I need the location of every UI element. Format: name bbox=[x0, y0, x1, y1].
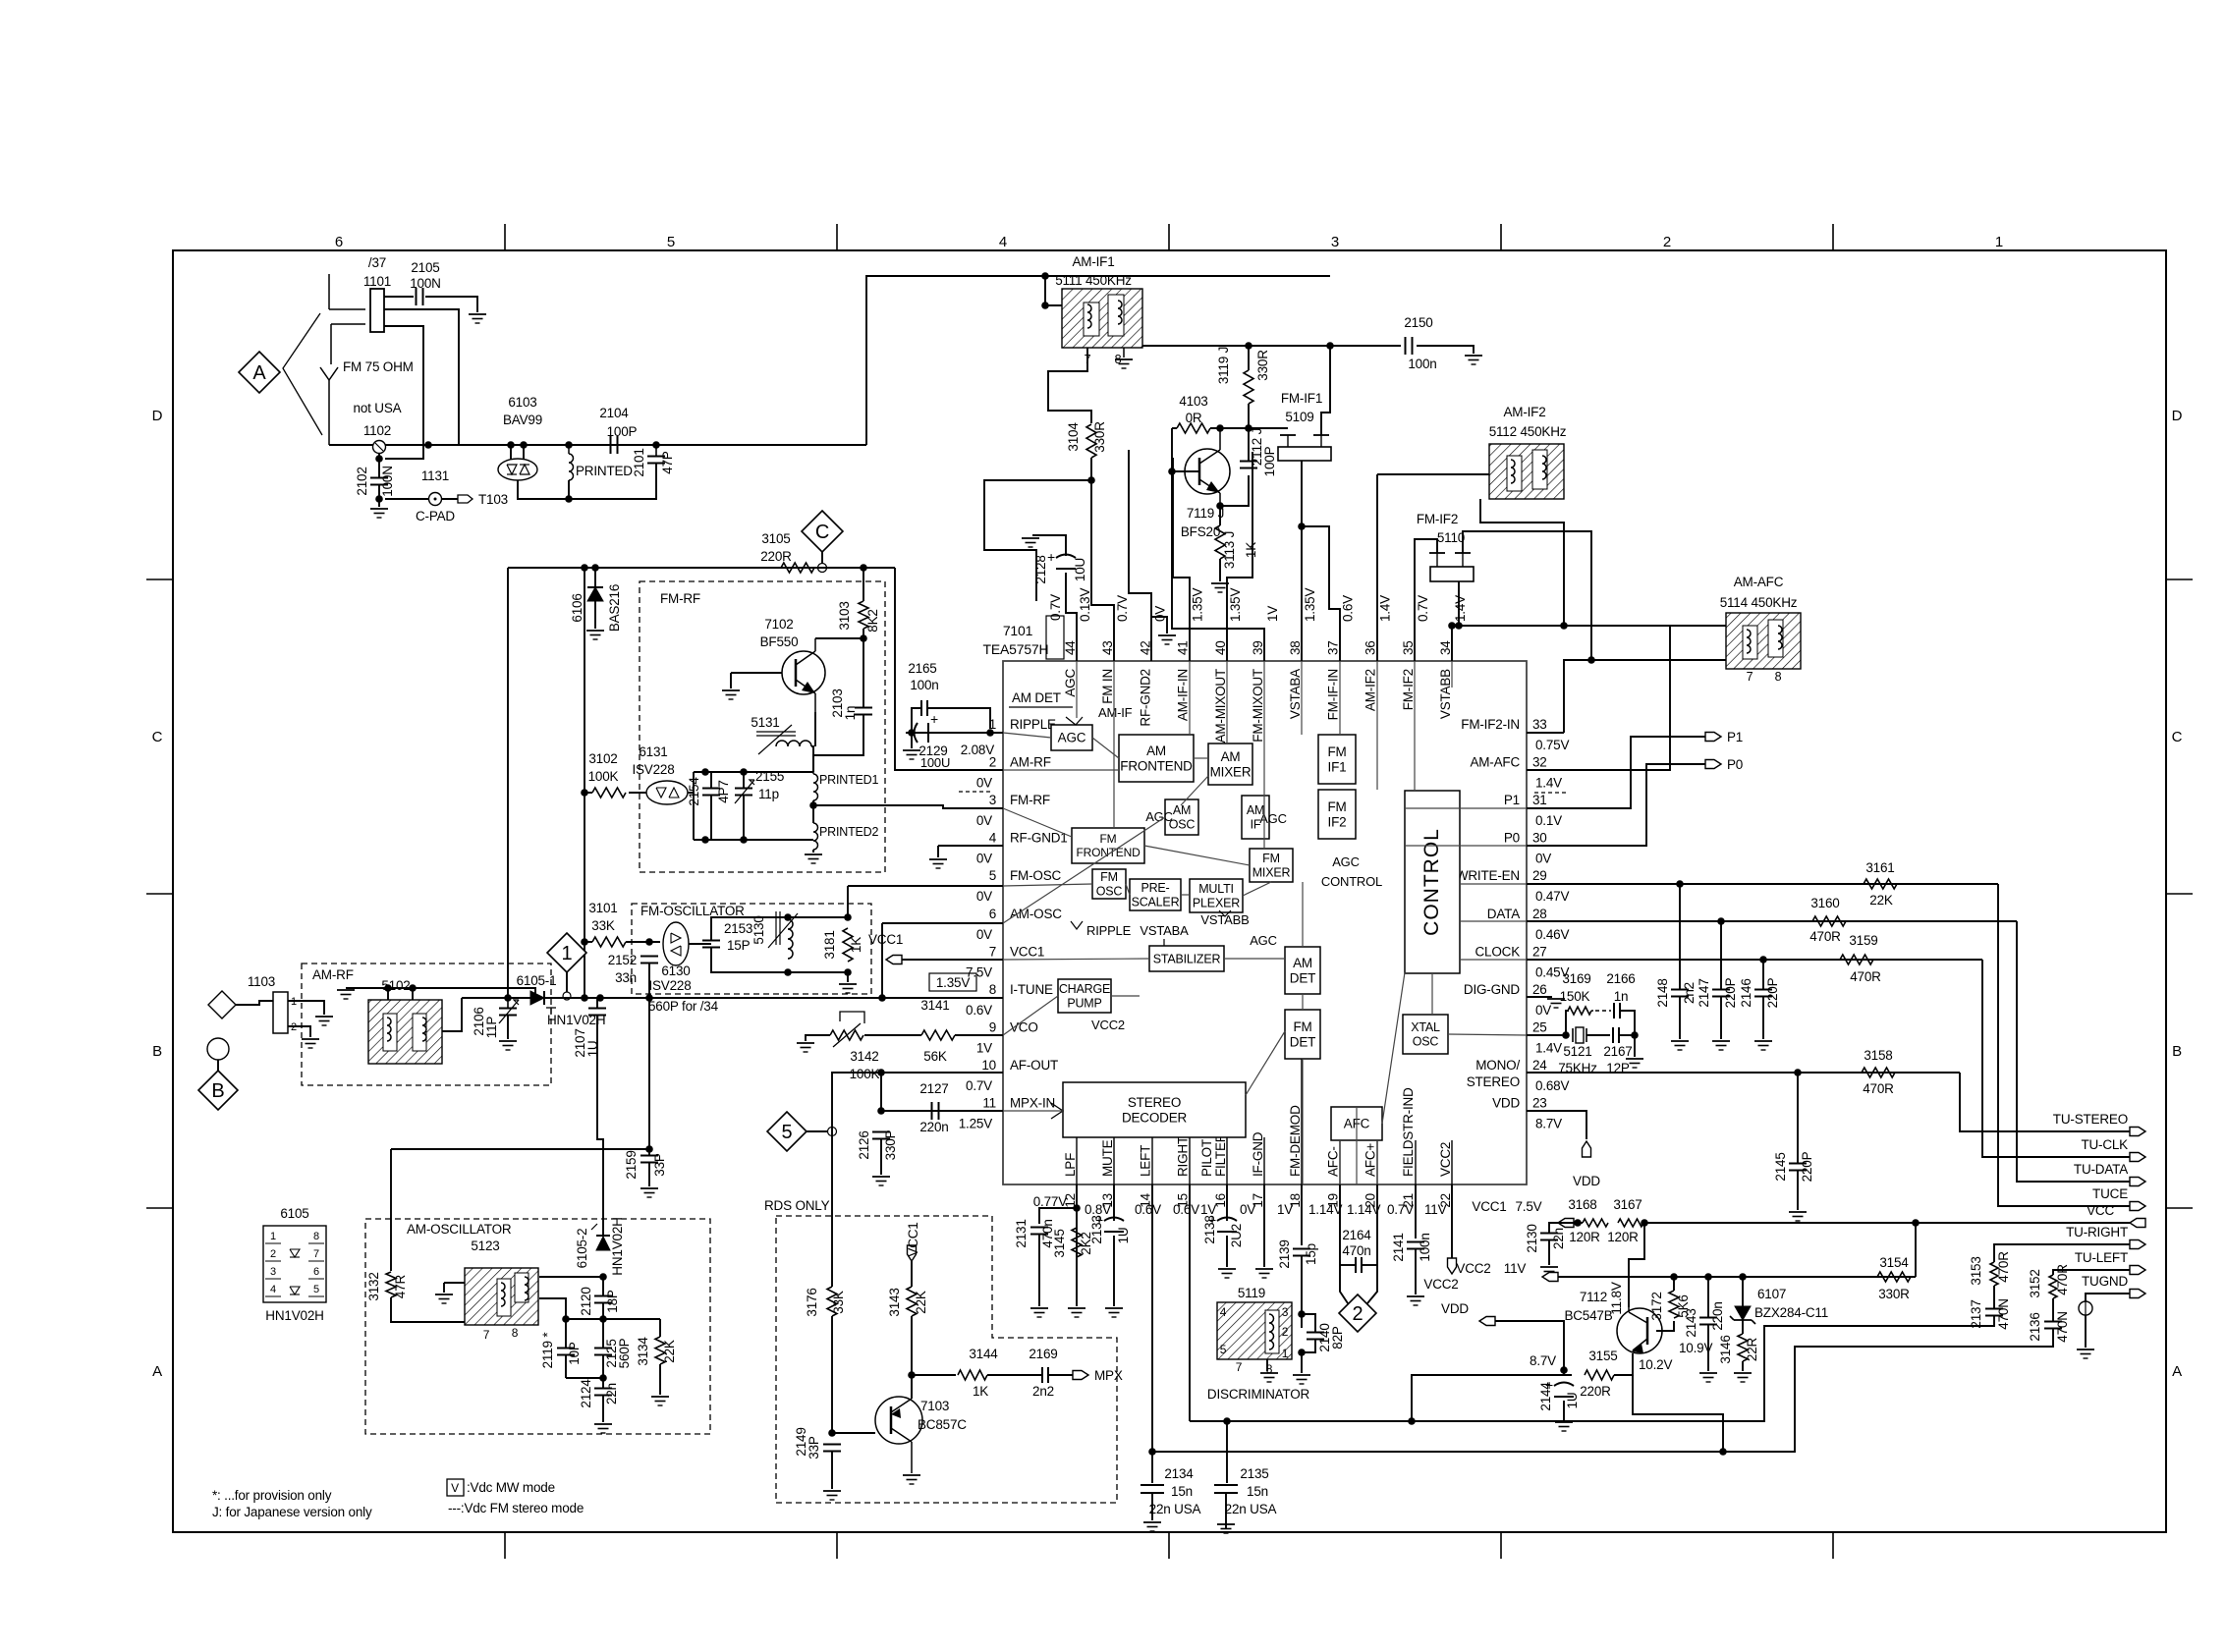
svg-text:100N: 100N bbox=[380, 466, 395, 496]
connector T103 bbox=[458, 495, 473, 503]
ground 2130 bbox=[1540, 1266, 1558, 1268]
block STEREO DECODER bbox=[1063, 1082, 1246, 1137]
svg-text:22K: 22K bbox=[914, 1291, 928, 1314]
capacitor 2146 bbox=[1754, 989, 1772, 991]
svg-text:220n: 220n bbox=[1710, 1301, 1725, 1330]
resistor 3141 bbox=[921, 1030, 955, 1040]
wire TUGND gnd bbox=[2085, 1315, 2087, 1348]
trimmer 3142 bbox=[830, 1030, 863, 1040]
wire pin10 corner bbox=[832, 1073, 881, 1287]
svg-text:BFS20: BFS20 bbox=[1181, 524, 1220, 539]
wire 7103 to 3144 bbox=[912, 1374, 956, 1376]
block FM MIXER bbox=[1250, 849, 1293, 882]
wire 3181 gnd bbox=[847, 972, 849, 982]
svg-text:33K: 33K bbox=[591, 918, 615, 933]
svg-text:2124: 2124 bbox=[579, 1379, 593, 1408]
diode 6105-2 bbox=[596, 1237, 610, 1250]
wire 3103 down bbox=[863, 629, 864, 638]
wire 2140 loop bbox=[1302, 1314, 1315, 1332]
junction 2167 right bbox=[1631, 1031, 1639, 1039]
wire 7102 base bbox=[731, 672, 782, 674]
wire pin14 long down bbox=[1151, 1184, 1153, 1452]
wire 3142 left bbox=[806, 1035, 830, 1041]
junction 7103 base bbox=[828, 1429, 836, 1437]
connector VCC2 pin22 bbox=[1448, 1258, 1457, 1274]
svg-text:10U: 10U bbox=[1073, 558, 1087, 581]
svg-text:3181: 3181 bbox=[822, 930, 837, 959]
junction 1620-672 bbox=[1587, 656, 1595, 664]
IC internal connection lines bbox=[1076, 661, 1078, 718]
ground 2124 bbox=[594, 1423, 612, 1425]
diode 6106 BAS216 bbox=[587, 587, 603, 601]
wire pin5 to tank bbox=[848, 885, 1003, 887]
junction emitter-TULEFT bbox=[1719, 1448, 1727, 1456]
jack TUGND bbox=[2079, 1301, 2092, 1315]
ground 5119 pin8 bbox=[1260, 1372, 1278, 1374]
wire 2155 dn bbox=[743, 796, 745, 840]
svg-text:38: 38 bbox=[1288, 640, 1303, 655]
wire 27 to TU-CLK bbox=[1982, 960, 2130, 1157]
svg-text:FM-RF: FM-RF bbox=[1010, 793, 1050, 807]
connector TU-DATA bbox=[2130, 1178, 2145, 1186]
ground pin42 stub bbox=[1158, 634, 1176, 636]
wire pin29 WRITE-EN bbox=[1527, 883, 1998, 885]
svg-text:FM: FM bbox=[1327, 744, 1346, 759]
wire 2154 up bbox=[710, 772, 712, 789]
wire 5102 top rail bbox=[388, 988, 535, 998]
svg-text:OSC: OSC bbox=[1413, 1035, 1439, 1049]
ground 2159 bbox=[640, 1187, 658, 1189]
svg-text:MIXER: MIXER bbox=[1210, 764, 1252, 779]
svg-text:AM: AM bbox=[1173, 803, 1191, 817]
svg-text:RIPPLE: RIPPLE bbox=[1010, 717, 1056, 732]
svg-text:26: 26 bbox=[1532, 982, 1547, 997]
wire 5123 gnd down bbox=[443, 1283, 445, 1293]
capacitor 2166 bbox=[1613, 1003, 1615, 1019]
label RIPPLE internal bbox=[1071, 921, 1083, 929]
svg-text:22K: 22K bbox=[1869, 893, 1893, 908]
svg-text:5130: 5130 bbox=[751, 915, 766, 944]
svg-text:4: 4 bbox=[1220, 1305, 1227, 1319]
svg-text:5131: 5131 bbox=[751, 715, 779, 730]
wire bottom row right bbox=[569, 464, 656, 499]
ground TUGND bbox=[2077, 1349, 2094, 1350]
wire TU-RIGHT run bbox=[1994, 1244, 2130, 1262]
wire 4103 left bbox=[1172, 427, 1177, 429]
svg-text:AFC-: AFC- bbox=[1325, 1146, 1340, 1177]
connector MPX bbox=[1073, 1371, 1088, 1380]
wire I-TUNE main bbox=[462, 997, 1003, 999]
svg-text:FM-IF2: FM-IF2 bbox=[1401, 669, 1416, 710]
svg-text:AM-MIXOUT: AM-MIXOUT bbox=[1213, 669, 1228, 743]
wire 5130 to 3181 top bbox=[788, 916, 848, 918]
svg-text:5: 5 bbox=[782, 1122, 793, 1143]
junction 7119 emitter bbox=[1216, 502, 1224, 510]
junction pin34-637 bbox=[1448, 622, 1456, 630]
wire pin40 stair bbox=[1227, 452, 1252, 661]
svg-text:0.6V: 0.6V bbox=[1135, 1202, 1161, 1217]
wire main antenna2 bbox=[385, 444, 866, 446]
svg-text:100P: 100P bbox=[1262, 446, 1277, 476]
svg-text:6: 6 bbox=[313, 1266, 319, 1278]
wire tank left riser bbox=[693, 772, 695, 840]
wire 6131 left bbox=[629, 792, 646, 794]
svg-text:FM-IF-IN: FM-IF-IN bbox=[1325, 669, 1340, 720]
diamond 1 bbox=[547, 933, 586, 972]
wire 5123 right top bbox=[539, 1276, 603, 1278]
svg-text:HN1V02H: HN1V02H bbox=[265, 1308, 323, 1323]
svg-text:11.8V: 11.8V bbox=[1609, 1282, 1624, 1314]
diamond A bbox=[239, 352, 280, 393]
wire 2135 stub bbox=[1226, 1421, 1228, 1483]
dashes 3169-2166 bbox=[1591, 1010, 1611, 1012]
ground 2145 bbox=[1789, 1211, 1807, 1213]
svg-text:3161: 3161 bbox=[1865, 860, 1894, 875]
svg-text:22n: 22n bbox=[1551, 1228, 1566, 1249]
svg-text:18P: 18P bbox=[605, 1290, 620, 1313]
svg-text:15n: 15n bbox=[1247, 1484, 1268, 1499]
svg-text:470N: 470N bbox=[2055, 1311, 2070, 1342]
border frame bbox=[173, 250, 2166, 1532]
junction tankB t bbox=[784, 913, 792, 921]
svg-text:22n USA: 22n USA bbox=[1149, 1502, 1201, 1516]
wire 2164 r bbox=[1362, 1264, 1377, 1266]
junction printed mid bbox=[809, 801, 817, 809]
wire 2134 gnd bbox=[1151, 1493, 1153, 1520]
wire 5110 gate right bbox=[1463, 531, 1591, 660]
svg-text:39: 39 bbox=[1251, 640, 1265, 655]
svg-text:RF-GND1: RF-GND1 bbox=[1010, 831, 1068, 846]
svg-text:5109: 5109 bbox=[1285, 410, 1313, 424]
svg-text:100N: 100N bbox=[410, 276, 440, 291]
svg-text:3143: 3143 bbox=[887, 1288, 902, 1316]
svg-text:37: 37 bbox=[1325, 640, 1340, 655]
svg-text:HN1V02H: HN1V02H bbox=[610, 1217, 625, 1275]
svg-text:8K2: 8K2 bbox=[865, 609, 880, 632]
wire VCC1 feed bbox=[1574, 1222, 1583, 1224]
svg-text:2136: 2136 bbox=[2028, 1312, 2042, 1341]
wire 1131 bbox=[385, 498, 429, 500]
svg-text:2138: 2138 bbox=[1202, 1215, 1217, 1243]
wire pin42 stair bbox=[1129, 450, 1151, 661]
svg-text:0.47V: 0.47V bbox=[1535, 889, 1569, 904]
block FM IF1 bbox=[1318, 735, 1356, 784]
connector VCC1 rds bbox=[908, 1245, 917, 1261]
svg-text:1.4V: 1.4V bbox=[1453, 595, 1468, 622]
svg-text:100n: 100n bbox=[1418, 1233, 1432, 1261]
svg-text:2145: 2145 bbox=[1773, 1152, 1788, 1181]
wire pin6 down bbox=[881, 923, 883, 998]
svg-text:2155: 2155 bbox=[755, 769, 784, 784]
svg-text:0.7V: 0.7V bbox=[1115, 595, 1130, 622]
svg-text:TU-STEREO: TU-STEREO bbox=[2053, 1112, 2128, 1127]
ground under 2150 bbox=[1465, 355, 1482, 357]
svg-text:33P: 33P bbox=[807, 1436, 821, 1459]
wire pin6 jog bbox=[882, 922, 1003, 924]
svg-text:VCC2: VCC2 bbox=[1423, 1277, 1458, 1292]
svg-text:8: 8 bbox=[989, 982, 996, 997]
svg-text:FRONTEND: FRONTEND bbox=[1076, 846, 1141, 859]
svg-text:RIPPLE: RIPPLE bbox=[1086, 923, 1132, 938]
wire 7112 collector bbox=[1629, 1223, 1644, 1307]
svg-text:RDS ONLY: RDS ONLY bbox=[764, 1198, 830, 1213]
ground xtal bbox=[1626, 1058, 1643, 1060]
junction 5102 a bbox=[384, 984, 392, 992]
wire 5109 rgate to 352 bbox=[1321, 346, 1330, 428]
svg-text:FM: FM bbox=[1262, 852, 1280, 865]
wire 7102 base gnd bbox=[730, 673, 732, 688]
svg-text:6: 6 bbox=[335, 234, 343, 250]
wire 2143 up bbox=[1707, 1277, 1709, 1317]
capacitor 2126 bbox=[872, 1131, 890, 1133]
svg-text:3113 J: 3113 J bbox=[1222, 531, 1237, 569]
wire 5121 to 2167 bbox=[1586, 1034, 1610, 1036]
svg-text:10.2V: 10.2V bbox=[1639, 1357, 1672, 1372]
svg-text:2127: 2127 bbox=[919, 1081, 948, 1096]
svg-text:3134: 3134 bbox=[636, 1337, 650, 1366]
junction 5110-637 bbox=[1455, 622, 1463, 630]
svg-text:3159: 3159 bbox=[1849, 933, 1877, 948]
boxed 1.35V pin8 bbox=[929, 973, 976, 991]
svg-text:28: 28 bbox=[1532, 907, 1547, 921]
svg-text:100U: 100U bbox=[920, 755, 950, 770]
ground under 3113 bbox=[1211, 582, 1229, 584]
svg-text:220P: 220P bbox=[1765, 977, 1780, 1008]
svg-text:STEREO: STEREO bbox=[1128, 1095, 1181, 1110]
svg-text:3160: 3160 bbox=[1810, 896, 1839, 910]
circle B node bbox=[207, 1038, 229, 1060]
dashed box AM-OSCILLATOR bbox=[365, 1219, 710, 1434]
svg-text:0V: 0V bbox=[976, 776, 992, 791]
wire 1343 rail bbox=[566, 1318, 660, 1320]
svg-text:0V: 0V bbox=[1152, 606, 1167, 622]
svg-text:AM-OSCILLATOR: AM-OSCILLATOR bbox=[407, 1222, 512, 1237]
svg-text:100K: 100K bbox=[850, 1067, 880, 1081]
wire circle to diamond B bbox=[217, 1060, 219, 1071]
svg-text:BZX284-C11: BZX284-C11 bbox=[1754, 1305, 1828, 1320]
svg-text:9: 9 bbox=[989, 1019, 996, 1034]
block AM IF bbox=[1242, 796, 1269, 839]
junction 606-578 bbox=[591, 564, 599, 572]
junction 2102-1131 bbox=[375, 495, 383, 503]
wire 220R rail bbox=[508, 567, 781, 569]
svg-text:3158: 3158 bbox=[1864, 1048, 1892, 1063]
wire 2153 links2 bbox=[711, 948, 788, 972]
ground 2138 bbox=[1218, 1268, 1236, 1270]
svg-text:B: B bbox=[2172, 1043, 2182, 1060]
svg-text::Vdc MW mode: :Vdc MW mode bbox=[467, 1480, 555, 1495]
wire pin22 down bbox=[1451, 1184, 1453, 1258]
wire 2159 top bbox=[648, 1149, 650, 1155]
svg-text:2166: 2166 bbox=[1606, 971, 1635, 986]
wire pin1 loop bbox=[912, 708, 920, 733]
svg-text:FM: FM bbox=[1293, 1019, 1311, 1034]
wire 2136 step left bbox=[1152, 1329, 2053, 1452]
ground 2133 bbox=[1105, 1307, 1123, 1309]
capacitor 2141 bbox=[1407, 1241, 1424, 1243]
svg-text:0V: 0V bbox=[976, 813, 992, 828]
junction vcc1 2130 bbox=[1574, 1219, 1582, 1227]
junction am-if1 rail bbox=[1041, 272, 1049, 280]
ground under 2126 bbox=[872, 1176, 890, 1178]
junction 5111 left pin bbox=[1041, 302, 1049, 309]
svg-text:3103: 3103 bbox=[837, 601, 852, 630]
svg-text:2119 *: 2119 * bbox=[540, 1332, 555, 1369]
svg-text:1n: 1n bbox=[1614, 989, 1629, 1004]
wire 2112 top bbox=[1248, 428, 1250, 461]
wire 6107 up bbox=[1742, 1277, 1744, 1306]
capacitor 2127 bbox=[931, 1102, 933, 1120]
svg-text:11P: 11P bbox=[484, 1017, 499, 1039]
svg-text:2133: 2133 bbox=[1089, 1215, 1104, 1243]
wire 28 to TU-DATA bbox=[2017, 921, 2130, 1182]
svg-text:150K: 150K bbox=[1560, 989, 1590, 1004]
wire 1103 pin1 bbox=[288, 1001, 324, 1015]
svg-text:2169: 2169 bbox=[1029, 1347, 1057, 1361]
wire pin10 left bbox=[881, 1072, 1003, 1074]
wire pin11 bbox=[881, 1110, 1003, 1112]
junction antenna-2101 bbox=[652, 441, 660, 449]
svg-text:2n2: 2n2 bbox=[1682, 982, 1697, 1004]
ground 2144 bbox=[1555, 1421, 1573, 1423]
ground 2149 bbox=[823, 1490, 841, 1492]
wire 2129 gnd bbox=[911, 733, 913, 748]
capacitor 2153 bbox=[702, 940, 720, 942]
svg-text:330R: 330R bbox=[1092, 421, 1107, 453]
svg-text:AM-IF2: AM-IF2 bbox=[1503, 405, 1545, 419]
ground 1103 pin2 bbox=[302, 1038, 319, 1040]
svg-text:IF2: IF2 bbox=[1328, 814, 1347, 829]
wire pin21 down bbox=[1415, 1184, 1417, 1239]
svg-text:7: 7 bbox=[1236, 1360, 1243, 1374]
svg-text:C: C bbox=[815, 522, 829, 543]
svg-text:CLOCK: CLOCK bbox=[1475, 944, 1520, 959]
junction 27-2146 bbox=[1759, 956, 1767, 964]
junction 3172 top bbox=[1670, 1273, 1678, 1281]
svg-text:15n: 15n bbox=[1171, 1484, 1193, 1499]
wire 7102 emitter to tank bbox=[814, 712, 816, 746]
wire 3167 to VCC bbox=[1643, 1222, 2130, 1224]
svg-text:7.5V: 7.5V bbox=[1516, 1199, 1542, 1214]
capacitor 2154 bbox=[702, 788, 720, 790]
wire 5119 pin1 gnd bbox=[1301, 1352, 1303, 1373]
svg-text:1K: 1K bbox=[1244, 542, 1258, 558]
wire 1102 down bbox=[378, 454, 380, 477]
trimmer 2106 bbox=[507, 998, 509, 1009]
ground 5102 left bbox=[337, 989, 355, 991]
trimmer 2155 bbox=[735, 788, 752, 790]
wire 7102c to 2103 bbox=[863, 638, 864, 707]
svg-text:2102: 2102 bbox=[355, 467, 369, 495]
wire 6130 right bbox=[689, 943, 711, 945]
svg-text:3105: 3105 bbox=[761, 531, 790, 546]
resistor 3176 bbox=[827, 1287, 837, 1316]
antenna bracket 1101 bbox=[328, 274, 330, 309]
svg-text:5119: 5119 bbox=[1238, 1286, 1265, 1300]
svg-text:P1: P1 bbox=[1504, 793, 1520, 807]
resistor 3153 bbox=[1990, 1262, 1998, 1286]
svg-text:AM-IF2: AM-IF2 bbox=[1363, 669, 1378, 711]
svg-text:1102: 1102 bbox=[363, 423, 391, 438]
junction 1404 bbox=[599, 1374, 607, 1382]
wire 2137 step left bbox=[1190, 1316, 1994, 1421]
capacitor 2119 bbox=[557, 1348, 575, 1349]
wire pin34 up bbox=[1451, 626, 1453, 661]
svg-text:1n: 1n bbox=[843, 706, 858, 721]
svg-text:8.7V: 8.7V bbox=[1530, 1353, 1556, 1368]
wire pin17 down bbox=[1263, 1184, 1265, 1267]
wire 2120 down bbox=[602, 1303, 604, 1348]
svg-text:3101: 3101 bbox=[588, 901, 617, 915]
wire 5109 body down bbox=[1301, 461, 1303, 526]
svg-text:C: C bbox=[152, 729, 163, 745]
svg-text:0.6V: 0.6V bbox=[966, 1003, 992, 1018]
wire 2131 gnd bbox=[1038, 1235, 1040, 1306]
svg-text:3152: 3152 bbox=[2028, 1269, 2042, 1297]
wire 2153 links bbox=[711, 917, 788, 940]
wire 5109 to pin37 bbox=[1302, 526, 1340, 661]
svg-text:2U2: 2U2 bbox=[1229, 1224, 1244, 1247]
svg-text:FM: FM bbox=[1100, 870, 1118, 884]
block AM DET bbox=[1285, 947, 1320, 994]
svg-text:0.7V: 0.7V bbox=[1048, 594, 1063, 621]
svg-text:AM-AFC: AM-AFC bbox=[1734, 575, 1784, 589]
svg-text:560P: 560P bbox=[617, 1338, 632, 1368]
wire 5111 pin7 to 3104 bbox=[1048, 348, 1091, 423]
wire 3154 up bbox=[1915, 1223, 1917, 1277]
svg-text:BAV99: BAV99 bbox=[503, 413, 542, 427]
wire 3101 left bbox=[584, 941, 592, 943]
junction 4103-7119c bbox=[1216, 424, 1224, 432]
svg-text:PLEXER: PLEXER bbox=[1193, 897, 1240, 910]
svg-text:3104: 3104 bbox=[1066, 422, 1081, 452]
capacitor 2102 bbox=[370, 477, 388, 479]
svg-text:10P: 10P bbox=[567, 1342, 582, 1365]
svg-text:WRITE-EN: WRITE-EN bbox=[1456, 868, 1520, 883]
svg-text:1.35V: 1.35V bbox=[936, 975, 970, 990]
ground 3146 bbox=[1734, 1372, 1752, 1374]
svg-text:470R: 470R bbox=[1809, 929, 1841, 944]
wire printed2 gnd bbox=[812, 850, 814, 853]
svg-text:6131: 6131 bbox=[639, 744, 667, 759]
connector TUCE bbox=[2130, 1202, 2145, 1211]
wire bav99 right pin bbox=[523, 445, 525, 460]
zener 6107 bbox=[1735, 1306, 1751, 1320]
svg-text:AGC: AGC bbox=[1250, 933, 1277, 948]
svg-text:2105: 2105 bbox=[411, 260, 439, 275]
svg-text:/37: /37 bbox=[368, 255, 386, 270]
svg-text:3146: 3146 bbox=[1718, 1335, 1733, 1363]
svg-text:36: 36 bbox=[1363, 640, 1378, 655]
wire 6131 right bbox=[688, 792, 694, 794]
svg-text:1U: 1U bbox=[1565, 1393, 1580, 1409]
svg-text:TU-LEFT: TU-LEFT bbox=[2075, 1250, 2128, 1265]
svg-text:2152: 2152 bbox=[608, 953, 637, 967]
svg-text:2165: 2165 bbox=[908, 661, 936, 676]
block FM DET bbox=[1285, 1010, 1320, 1059]
svg-text:5: 5 bbox=[667, 234, 675, 250]
transformer 5102 bbox=[368, 1000, 442, 1064]
coil 5131 bbox=[776, 741, 811, 746]
svg-text:0V: 0V bbox=[976, 889, 992, 904]
svg-text:5110: 5110 bbox=[1437, 530, 1465, 545]
wire 2133 gnd bbox=[1113, 1236, 1115, 1306]
junction 3101-595 bbox=[581, 938, 588, 946]
svg-text:560P for /34: 560P for /34 bbox=[648, 999, 719, 1014]
wire 2169 to MPX bbox=[1049, 1374, 1073, 1376]
wire 7103 base wire bbox=[832, 1432, 875, 1434]
wire pin32 to 5114 bbox=[1527, 626, 1670, 770]
